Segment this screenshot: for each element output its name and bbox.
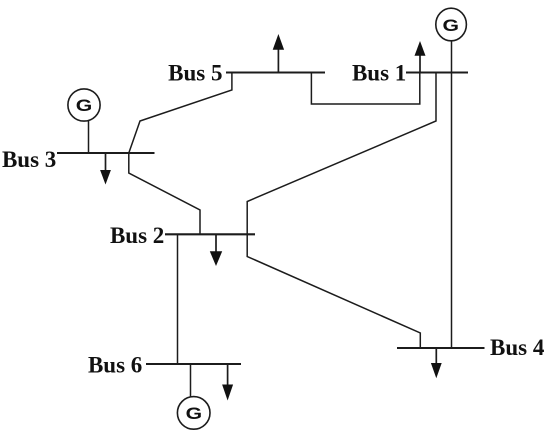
svg-text:Bus 5: Bus 5 — [168, 61, 222, 86]
generator G6 stem — [190, 364, 192, 398]
svg-text:Bus 4: Bus 4 — [490, 335, 545, 360]
bus 5 busbar — [226, 71, 325, 73]
bus 3 busbar — [57, 152, 155, 154]
svg-text:Bus 6: Bus 6 — [88, 352, 142, 377]
generator G1 circle at bus 1 — [436, 8, 467, 41]
wire line bus5-bus1 — [311, 73, 419, 105]
wire line bus3-bus2 — [129, 153, 200, 234]
generator G1 stem — [451, 41, 453, 73]
svg-text:Bus 1: Bus 1 — [352, 61, 406, 86]
svg-text:G: G — [76, 97, 93, 115]
load/gen arrow up at bus 5 — [277, 48, 279, 73]
load arrow down at bus 2 — [215, 234, 217, 252]
load/gen arrow up at bus 1 — [419, 55, 421, 73]
load arrow down at bus 6 — [227, 364, 229, 385]
svg-text:G: G — [443, 17, 460, 35]
svg-text:Bus 3: Bus 3 — [2, 147, 56, 172]
wire line bus1-bus4 — [451, 73, 453, 349]
bus 2 busbar — [165, 233, 255, 235]
generator G3 stem — [88, 121, 90, 153]
wire line bus5-bus3 — [129, 73, 232, 154]
svg-text:G: G — [186, 405, 203, 423]
wire line bus2-bus4 — [247, 234, 420, 348]
load arrow down at bus 4 — [435, 348, 437, 364]
bus 6 busbar — [146, 363, 241, 365]
wire line bus2-bus6 — [177, 234, 179, 364]
wire line bus1-bus2 — [247, 73, 436, 235]
svg-text:Bus 2: Bus 2 — [110, 223, 164, 248]
bus 4 busbar — [397, 347, 485, 349]
bus 1 busbar — [406, 71, 468, 73]
generator G6 circle at bus 6 — [177, 397, 210, 430]
generator G3 circle at bus 3 — [68, 89, 100, 121]
load arrow down at bus 3 — [105, 153, 107, 171]
